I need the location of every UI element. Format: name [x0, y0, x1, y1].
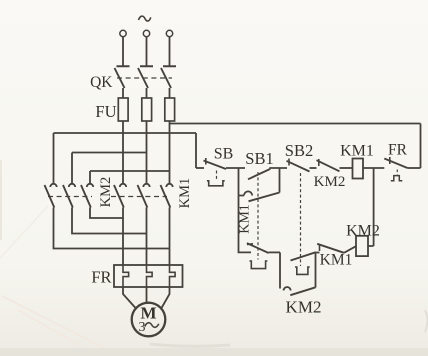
svg-text:FR: FR [388, 142, 408, 159]
svg-text:KM1: KM1 [177, 178, 193, 209]
svg-text:KM1: KM1 [340, 143, 374, 160]
svg-text:FR: FR [91, 268, 111, 287]
svg-text:KM2: KM2 [314, 174, 346, 190]
svg-text:KM2: KM2 [286, 298, 322, 317]
svg-text:SB1: SB1 [245, 149, 273, 168]
svg-text:KM2: KM2 [98, 177, 114, 208]
svg-text:QK: QK [90, 74, 113, 91]
svg-text:SB: SB [214, 146, 234, 163]
svg-text:KM1: KM1 [238, 204, 253, 234]
svg-text:KM2: KM2 [346, 223, 380, 240]
svg-text:FU: FU [95, 102, 116, 121]
svg-text:SB2: SB2 [285, 141, 313, 160]
svg-text:KM1: KM1 [320, 252, 353, 269]
svg-text:3: 3 [139, 320, 146, 335]
